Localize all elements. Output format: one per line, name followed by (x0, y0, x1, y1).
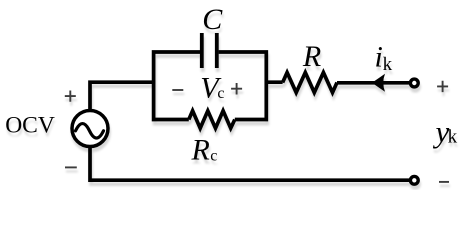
resistor Rc zigzag (189, 111, 235, 128)
svg-text:i: i (375, 41, 383, 74)
svg-text:k: k (448, 127, 458, 148)
plus source (65, 91, 76, 102)
svg-text:k: k (383, 54, 393, 75)
resistor R zigzag (283, 73, 337, 93)
terminal top (410, 79, 418, 87)
wire R to top terminal (337, 81, 410, 85)
plus Vc (231, 83, 242, 95)
wire source bottom + bottom rail (90, 146, 410, 180)
capacitor C plates (202, 33, 217, 68)
svg-text:R: R (191, 133, 210, 166)
svg-text:c: c (210, 148, 217, 165)
plus output (437, 81, 448, 92)
minus output (439, 181, 449, 183)
svg-text:c: c (217, 85, 224, 102)
svg-text:R: R (302, 40, 321, 73)
terminal bottom (410, 176, 418, 184)
node box-right: top branch right + right edge + bottom branch right (219, 52, 267, 120)
source sine symbol (76, 124, 104, 139)
node box-left: top branch left + left edge + bottom branch left (154, 52, 200, 120)
minus source (65, 166, 77, 168)
svg-text:C: C (202, 3, 223, 36)
wire source top to RC box (90, 82, 155, 111)
source V circle (72, 111, 108, 147)
wire box mid-right to R (266, 80, 282, 84)
svg-text:OCV: OCV (5, 112, 55, 138)
minus Vc (172, 89, 183, 91)
arrowhead i_k (372, 74, 385, 92)
